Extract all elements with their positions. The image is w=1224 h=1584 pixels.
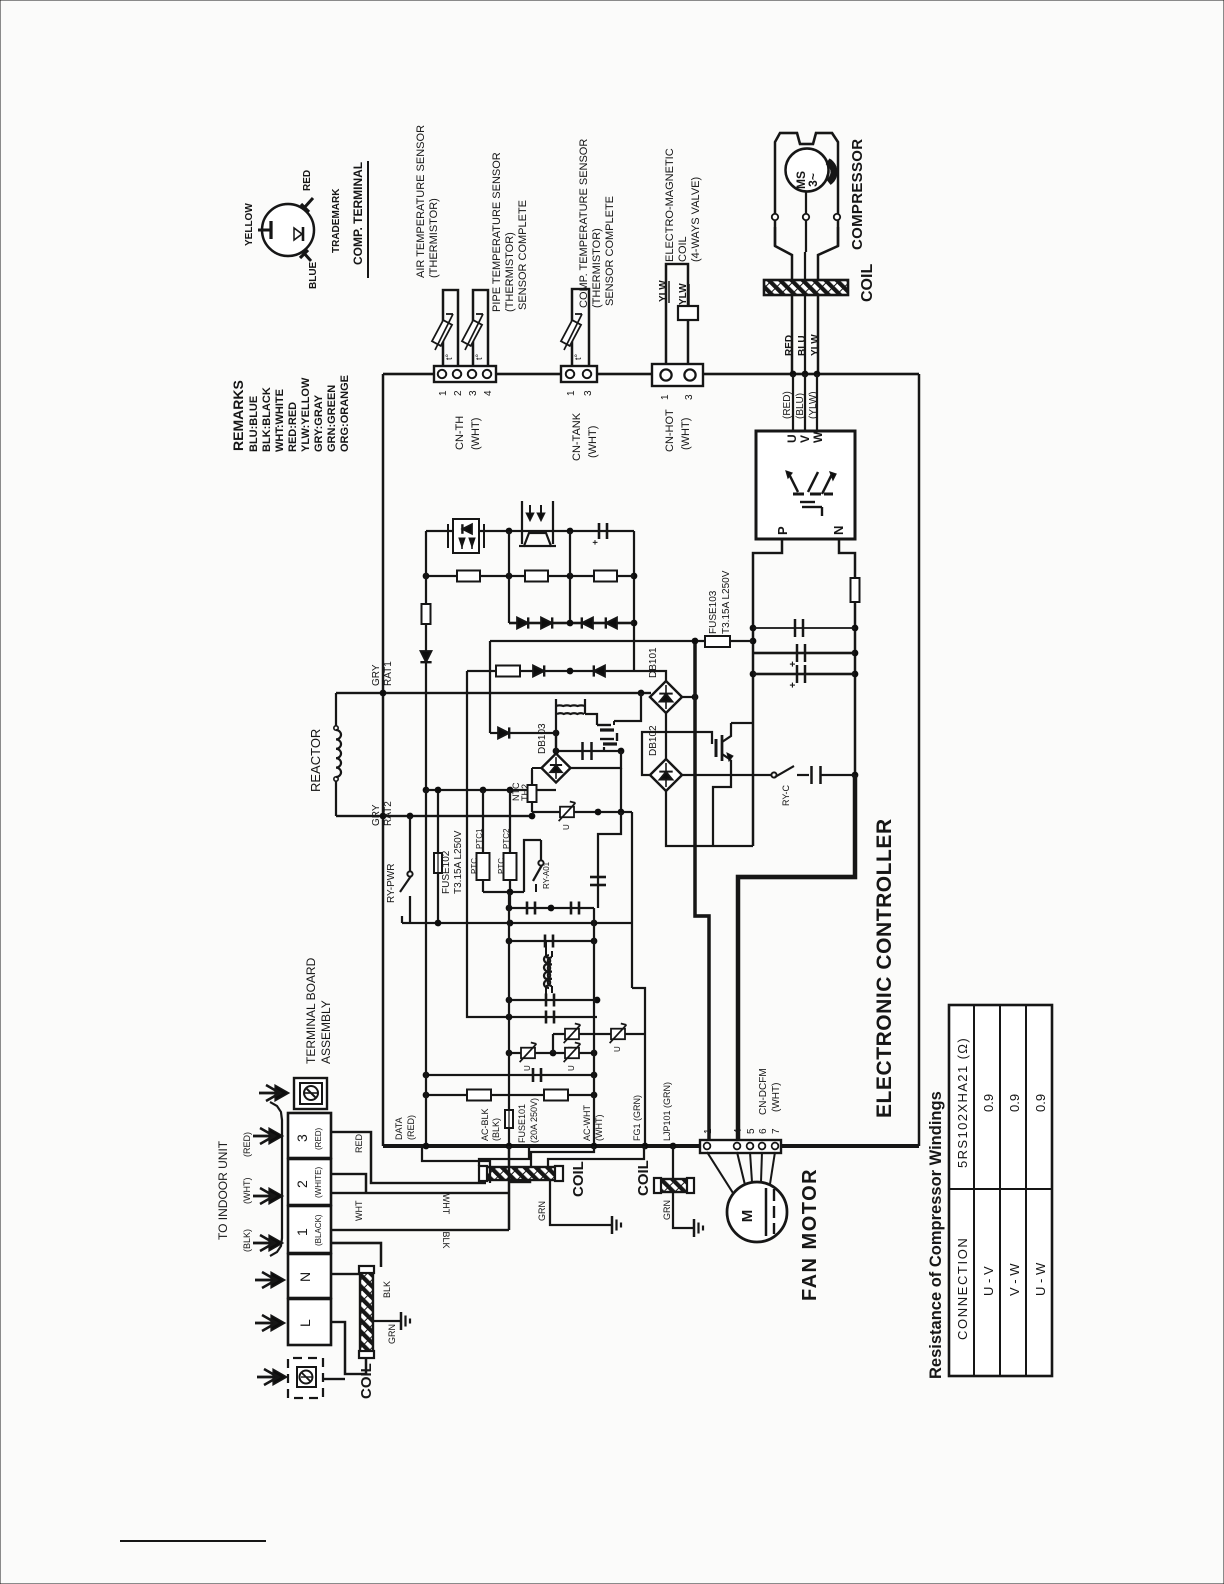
relay switch RY-C (771, 772, 776, 777)
table outer box (949, 1005, 1052, 1376)
wire opto row horizontal (426, 530, 634, 532)
svg-text:COMP. TERMINAL: COMP. TERMINAL (351, 162, 365, 265)
svg-text:DB102: DB102 (648, 725, 659, 756)
svg-text:(RED): (RED) (314, 1127, 323, 1150)
vertical rail from FUSE103 node down (695, 641, 709, 1140)
inverter power module box (756, 431, 855, 539)
fuse FUSE103 wire (490, 640, 753, 642)
resistor row1095 a (467, 1090, 491, 1101)
capacitor row1017 (545, 1011, 548, 1024)
wire X621 down to varistor row (620, 768, 622, 812)
thermistor PTC1 branch (482, 790, 484, 853)
svg-text:+: + (590, 540, 600, 545)
svg-text:3: 3 (583, 390, 594, 396)
svg-text:WHT: WHT (354, 1200, 364, 1221)
svg-text:COMP. TEMPERATURE SENSOR: COMP. TEMPERATURE SENSOR (578, 139, 590, 308)
pin 3 of CN-TH (468, 370, 476, 378)
underline comp terminal (367, 161, 369, 278)
svg-text:CN-TH: CN-TH (454, 416, 466, 450)
thermistor symbol (561, 320, 581, 346)
coil body of 4-ways valve (678, 306, 698, 320)
coil choke right tab (555, 1166, 563, 1181)
line transformer2 primary (544, 955, 549, 988)
svg-text:GRN: GRN (662, 1200, 672, 1220)
connector CN-TANK (561, 366, 597, 382)
svg-text:BLU: BLU (797, 335, 808, 356)
svg-text:YLW: YLW (658, 280, 669, 302)
capacitor row2 polarized (796, 644, 799, 662)
wire earth screw bottom stub (323, 1378, 345, 1380)
transformer primary winding (556, 704, 585, 707)
svg-text:(WHT): (WHT) (680, 418, 692, 450)
svg-text:(BLK): (BLK) (242, 1229, 252, 1252)
varistor on row Y812 (560, 807, 574, 818)
svg-text:TO INDOOR UNIT: TO INDOOR UNIT (216, 1140, 230, 1240)
svg-text:FUSE102: FUSE102 (441, 850, 452, 894)
wire row under diode row (467, 670, 634, 672)
table row line 2 (999, 1005, 1001, 1376)
wire DB102 right vertex to RY-C (682, 774, 771, 776)
wire cap row 3 (753, 673, 855, 676)
thermistor symbol (462, 320, 482, 346)
svg-text:(BLK): (BLK) (491, 1118, 501, 1141)
svg-text:COIL: COIL (635, 1160, 652, 1196)
wire main board outline right edge (918, 374, 921, 1146)
thermistor sensor loop (572, 289, 589, 366)
svg-text:REMARKS: REMARKS (230, 380, 246, 451)
coil3 line choke vertical (360, 1272, 373, 1352)
compressor terminal pin mid (803, 214, 809, 220)
varistor v3 (611, 1029, 625, 1040)
wire cap row Y941 (509, 940, 594, 942)
wire resistor row Y1095 (426, 1094, 594, 1096)
svg-text:WHT:WHITE: WHT:WHITE (274, 389, 286, 452)
capacitor row1000 (545, 994, 548, 1007)
svg-text:(WHT): (WHT) (594, 1115, 604, 1142)
svg-text:4: 4 (733, 1128, 744, 1134)
wire main board bottom bus left of CN-DCFM (383, 1144, 700, 1148)
wire IGBT emitter down (713, 760, 731, 846)
coil choke body (486, 1167, 556, 1180)
inverter gate lines (800, 501, 815, 503)
resistor row1095 b (544, 1090, 568, 1101)
svg-text:(WHT): (WHT) (771, 1083, 782, 1112)
wire cap row 2 (753, 652, 855, 655)
pin 1 of CN-DCFM (704, 1143, 711, 1150)
wire terminal1 to coil3 (331, 1243, 381, 1267)
wire N stub from inverter (839, 539, 855, 578)
wire choke step left (479, 1146, 529, 1166)
capacitor row908 b (570, 902, 573, 915)
rail LJP101 X673 (670, 1143, 677, 1150)
svg-text:PTC: PTC (497, 858, 506, 874)
svg-text:U: U (785, 434, 799, 443)
svg-text:ELECTRONIC CONTROLLER: ELECTRONIC CONTROLLER (873, 818, 896, 1118)
wire DATA step to RED wire (422, 1146, 490, 1183)
wire fan lead pin6 (761, 1152, 762, 1182)
svg-text:RED:RED: RED:RED (287, 402, 299, 452)
svg-text:SENSOR COMPLETE: SENSOR COMPLETE (604, 196, 616, 306)
svg-text:t°: t° (474, 353, 484, 360)
varistor v1 (521, 1048, 535, 1059)
wire corner down right of cap (633, 531, 635, 671)
wire X509 drop below bus (508, 1146, 510, 1230)
wire rail X489 (489, 641, 491, 733)
svg-text:2: 2 (294, 1180, 310, 1188)
junction dots compressor wires on top edge (790, 371, 797, 378)
svg-text:3: 3 (468, 390, 479, 396)
junction dot opto row 2 (567, 528, 574, 535)
wire RY-C cap to N rail (821, 774, 855, 776)
bridge rectifier DB103 (542, 754, 571, 783)
diode row d3 (582, 617, 593, 628)
wire varistor row Y1053 (509, 1052, 594, 1054)
terminal block N (288, 1254, 331, 1298)
svg-text:AC-WHT: AC-WHT (582, 1105, 592, 1141)
wire compressor YLW lead (816, 374, 818, 431)
svg-text:5RS102XHA21 (Ω): 5RS102XHA21 (Ω) (955, 1037, 970, 1168)
svg-text:(THERMISTOR): (THERMISTOR) (591, 228, 603, 308)
transistor IGBT (715, 739, 718, 757)
svg-text:RY-PWR: RY-PWR (386, 864, 397, 903)
svg-text:1: 1 (566, 390, 577, 396)
svg-text:AC-BLK: AC-BLK (480, 1108, 490, 1141)
pin 7 of CN-DCFM (772, 1143, 779, 1150)
svg-text:YLW: YLW (810, 334, 821, 356)
arrow to earth screw top (259, 1092, 280, 1095)
wire coil2 to earth (673, 1192, 693, 1228)
wire IGBT collector to P rail (731, 722, 753, 724)
footer rule line (120, 1540, 266, 1542)
svg-text:N: N (831, 526, 846, 535)
wire cap row 1 (753, 627, 855, 629)
svg-text:SENSOR COMPLETE: SENSOR COMPLETE (517, 200, 529, 310)
resistor under row (496, 666, 520, 677)
pin 4 of CN-TH (483, 370, 491, 378)
thermistor symbol (432, 320, 452, 346)
comp terminal center arrow (294, 228, 302, 240)
transformer2 windings (546, 957, 550, 986)
fuse FUSE102 branch (437, 790, 439, 853)
wire main board bottom bus right of CN-DCFM (781, 1144, 919, 1148)
svg-text:RAT1: RAT1 (383, 661, 394, 686)
compressor body outline (775, 133, 838, 246)
svg-text:V: V (798, 435, 812, 443)
capacitor row1 (794, 619, 797, 637)
svg-text:0.9: 0.9 (1007, 1094, 1022, 1112)
wire LJP101 down (672, 1146, 674, 1179)
compressor center wire (805, 191, 807, 252)
connector CN-HOT (652, 364, 703, 386)
capacitor row3 polarized (796, 665, 799, 683)
arrow to terminal 3 (253, 1135, 274, 1138)
wire DATA cap row Y1075 (426, 1074, 594, 1076)
compressor COIL ferrite bar (764, 280, 848, 295)
fuse FUSE102 body (434, 853, 442, 873)
svg-text:FG1 (GRN): FG1 (GRN) (632, 1095, 642, 1141)
diode under row 2 (594, 665, 605, 676)
inverter transistor bars (793, 493, 804, 496)
svg-text:U - W: U - W (1033, 1262, 1048, 1296)
resistor row r2 (525, 571, 548, 582)
arrow to earth screw bottom (257, 1376, 278, 1379)
wire DB101 bottom to DB102 top (665, 713, 667, 759)
table row line 1 (973, 1005, 975, 1376)
bridge rectifier DB102 (650, 759, 682, 791)
svg-text:COMPRESSOR: COMPRESSOR (849, 139, 866, 250)
wire DB101 top vertex link (634, 671, 666, 681)
fan motor circle (727, 1182, 787, 1242)
comp terminal circle (262, 204, 314, 256)
pin 1 of CN-HOT (660, 369, 671, 380)
wire DB101 right vertex to vertical rail (682, 696, 695, 698)
svg-text:t°: t° (444, 353, 454, 360)
comp terminal blue pin (303, 252, 311, 261)
compressor terminal pin left (772, 214, 778, 220)
wire choke step from FG1 (548, 1146, 644, 1166)
wire diode row (509, 622, 634, 625)
relay RY-A01 loop (524, 840, 541, 892)
coil2 body (660, 1179, 688, 1192)
svg-text:RED: RED (784, 335, 795, 356)
wire PTC bottoms join (483, 891, 524, 893)
wire P stub from inverter (753, 539, 782, 846)
svg-text:(RED): (RED) (782, 391, 793, 419)
wire terminal L loop (331, 1322, 366, 1374)
svg-text:(RED): (RED) (406, 1115, 416, 1140)
capacitor under transformer (581, 742, 584, 760)
pin 4 of CN-DCFM (734, 1143, 741, 1150)
svg-text:1: 1 (438, 390, 449, 396)
junction dots on N rail (852, 625, 859, 632)
svg-text:(THERMISTOR): (THERMISTOR) (428, 198, 440, 278)
svg-text:GRY:GRAY: GRY:GRAY (313, 394, 325, 452)
compressor trademark mark (828, 161, 834, 182)
terminal block 1 BLACK (288, 1206, 331, 1253)
svg-text:FUSE103: FUSE103 (708, 590, 719, 634)
svg-text:(WHT): (WHT) (587, 426, 599, 458)
mosfet Q1 (597, 724, 611, 726)
svg-text:CONNECTION: CONNECTION (955, 1237, 970, 1340)
svg-text:U: U (613, 1046, 622, 1052)
capacitor at RY-C (810, 766, 813, 784)
svg-text:3~: 3~ (806, 173, 820, 187)
resistor row r3 (594, 571, 617, 582)
wire coil3 to earth (373, 1320, 401, 1322)
wire RAT1 line (336, 692, 651, 694)
fan motor commutator solid line (765, 1188, 767, 1236)
svg-text:COIL: COIL (859, 264, 876, 302)
wire left branch lower (425, 624, 427, 790)
svg-text:1: 1 (294, 1228, 310, 1236)
svg-text:3: 3 (294, 1134, 310, 1142)
capacitor on X598 (590, 876, 606, 879)
relay RY-PWR (409, 816, 411, 871)
wire choke to earth (550, 1179, 612, 1225)
bridge rectifier DB101 (650, 681, 682, 713)
svg-text:BLK: BLK (382, 1281, 392, 1298)
svg-text:6: 6 (758, 1128, 769, 1134)
pin 2 of CN-TH (453, 370, 461, 378)
table column divider (949, 1188, 1052, 1190)
svg-text:U: U (523, 1065, 532, 1071)
wire vertical mid2 (569, 531, 571, 625)
svg-text:GRN:GREEN: GRN:GREEN (326, 385, 338, 452)
table row line 3 (1025, 1005, 1027, 1376)
svg-text:0.9: 0.9 (1033, 1094, 1048, 1112)
svg-text:COIL: COIL (677, 236, 689, 262)
capacitor row908 a (526, 902, 529, 915)
junction dot opto row (506, 528, 513, 535)
pin 3 of CN-TANK (583, 370, 591, 378)
connector CN-TH (434, 366, 496, 382)
rail AC-WHT X594 (593, 908, 595, 1146)
svg-text:T3.15A L250V: T3.15A L250V (453, 830, 464, 894)
comp terminal yellow pin (258, 229, 272, 232)
svg-text:U: U (562, 824, 571, 830)
svg-text:WHT: WHT (441, 1194, 451, 1215)
svg-text:BLU:BLUE: BLU:BLUE (248, 396, 260, 452)
diode under row 1 (533, 665, 544, 676)
svg-text:ELECTRO-MAGNETIC: ELECTRO-MAGNETIC (664, 148, 676, 262)
svg-text:YLW:YELLOW: YLW:YELLOW (300, 377, 312, 452)
wire mosfet drain to DB101 node (614, 693, 641, 721)
wire fan lead pin5 (750, 1152, 752, 1182)
svg-text:LJP101 (GRN): LJP101 (GRN) (662, 1082, 672, 1141)
svg-text:3: 3 (684, 394, 695, 400)
svg-text:5: 5 (746, 1128, 757, 1134)
svg-text:BLK: BLK (441, 1231, 451, 1248)
wire compressor BLU lead (804, 374, 806, 431)
svg-text:YLW: YLW (678, 283, 689, 305)
diode at transformer node (498, 727, 509, 738)
inverter transistor symbol arrows (788, 472, 798, 492)
capacitor top right polarized (598, 523, 601, 539)
svg-text:RAT2: RAT2 (383, 801, 394, 826)
fuse FUSE103 body (705, 636, 730, 647)
wire left branch vertical (425, 531, 427, 604)
svg-text:CN-DCFM: CN-DCFM (758, 1068, 769, 1115)
svg-text:Resistance of Compressor Windi: Resistance of Compressor Windings (927, 1091, 945, 1379)
wire compressor RED lead (792, 374, 794, 431)
wire DB103 top vertex (555, 733, 557, 753)
wire RAT2 line (336, 815, 532, 817)
svg-text:M: M (739, 1210, 756, 1223)
wire X632 rail (631, 812, 633, 988)
ground at coil3 (400, 1312, 403, 1330)
capacitor row941 (544, 935, 547, 948)
fan motor commutator dashed line (773, 1189, 775, 1201)
svg-text:L: L (297, 1319, 313, 1327)
svg-text:(WHT): (WHT) (242, 1178, 252, 1205)
svg-text:1: 1 (703, 1128, 714, 1134)
wire vertical mid1 (508, 531, 510, 623)
thermistor PTC2 branch (509, 790, 511, 853)
wire RY-PWR FUSE102 bottom bus (402, 922, 632, 924)
svg-text:ASSEMBLY: ASSEMBLY (319, 1000, 333, 1064)
wire terminal3 RED to choke (331, 1132, 486, 1183)
wire terminal2 WHT long (331, 1192, 509, 1194)
wire fan lead pin1 (707, 1152, 733, 1193)
wire fan lead pin7 (770, 1152, 775, 1184)
wire cap row Y908 (509, 907, 594, 909)
svg-text:P: P (775, 526, 790, 535)
svg-text:4: 4 (483, 390, 494, 396)
wire terminal2 stub (331, 1174, 366, 1193)
wire main board outline left edge (382, 374, 385, 1146)
comp terminal red pin (304, 198, 313, 208)
reactor coil (335, 693, 337, 726)
pin 5 of CN-DCFM (747, 1143, 754, 1150)
svg-text:BLK:BLACK: BLK:BLACK (261, 387, 273, 452)
svg-text:RY-C: RY-C (781, 784, 791, 806)
wire resistor row horizontal (426, 575, 634, 577)
wire rail X467 down (467, 671, 509, 1017)
compressor funnel right (818, 227, 838, 374)
svg-text:RED: RED (354, 1133, 364, 1153)
svg-text:7: 7 (771, 1128, 782, 1134)
svg-text:DB103: DB103 (537, 723, 548, 754)
transformer secondary winding (557, 712, 584, 715)
pin 3 of CN-HOT (684, 369, 695, 380)
svg-text:GRN: GRN (387, 1324, 397, 1344)
arrow to terminal L (255, 1322, 276, 1325)
coil choke left tab (479, 1166, 487, 1181)
arrow to terminal N (255, 1279, 276, 1282)
svg-text:(WHITE): (WHITE) (314, 1167, 323, 1198)
svg-text:FAN MOTOR: FAN MOTOR (799, 1168, 821, 1301)
compressor funnel left (775, 227, 792, 374)
wire cap under transformer (556, 750, 621, 752)
resistor left branch (422, 604, 431, 624)
wire choke step from AC-WHT (531, 1146, 594, 1166)
svg-text:BLUE: BLUE (308, 261, 319, 289)
svg-text:2: 2 (453, 390, 464, 396)
svg-text:PIPE TEMPERATURE SENSOR: PIPE TEMPERATURE SENSOR (491, 152, 503, 312)
pin 1 of CN-TH (438, 370, 446, 378)
arrow to terminal 2 (253, 1195, 274, 1198)
wire terminal1 BLK long (331, 1229, 509, 1231)
wire DB102 bottom vertex (666, 791, 753, 846)
wire varistor row Y1034 (553, 1033, 645, 1035)
svg-text:GRN: GRN (537, 1201, 547, 1221)
svg-text:GRY: GRY (371, 804, 382, 826)
wire diode feed into transformer node (490, 732, 556, 734)
pin 1 of CN-TANK (566, 370, 574, 378)
svg-text:0.9: 0.9 (981, 1094, 996, 1112)
bracket for indoor unit wires (270, 1102, 282, 1256)
wire varistor row Y812 (532, 811, 632, 813)
svg-text:PTC1: PTC1 (475, 828, 484, 849)
rail DATA X426 (425, 790, 427, 1146)
svg-text:DATA: DATA (394, 1117, 404, 1140)
svg-text:U - V: U - V (981, 1266, 996, 1296)
terminal board earth screw box bottom dashed (288, 1358, 323, 1398)
varistor v2a (565, 1029, 579, 1040)
wire small loop X598 (598, 812, 621, 908)
junction dots on P rail (750, 625, 757, 632)
phototransistor dome (519, 533, 556, 546)
wire WHT to choke bottom (509, 1179, 530, 1182)
electro-magnetic coil loop wires (666, 264, 688, 364)
svg-text:1: 1 (660, 394, 671, 400)
terminal block L (288, 1299, 331, 1345)
svg-text:(RED): (RED) (242, 1132, 252, 1157)
compressor motor MS 3~ circle (786, 149, 829, 192)
pin 6 of CN-DCFM (759, 1143, 766, 1150)
opto-coupler phototransistor (521, 501, 523, 544)
svg-text:ORG:ORANGE: ORG:ORANGE (339, 375, 351, 452)
